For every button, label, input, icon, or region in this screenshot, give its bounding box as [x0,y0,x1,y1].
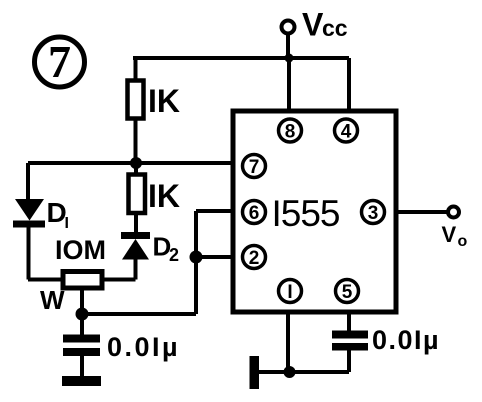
pin 7 [243,155,266,179]
terminal Vcc [282,21,295,34]
junction pin2 node [190,251,203,264]
label Vo [442,222,468,250]
resistor R1 1K [128,81,144,119]
capacitor C1 0.01u [63,335,100,357]
resistor R2 1K [129,175,146,214]
svg-text:I555: I555 [271,193,339,234]
wire wiper to pins 2-6 [82,312,196,316]
svg-text:I: I [287,282,292,303]
capacitor C2 0.01u [332,331,368,351]
potentiometer 10M [63,272,102,289]
wire Vcc to top rail [286,34,290,58]
wire left drop to D1 [26,163,30,200]
svg-text:8: 8 [285,122,296,143]
wire pot left lead [28,278,63,282]
wire pin5 drop [347,312,351,331]
wire node A to R2 [134,163,138,175]
wire top rail to R1 [134,58,138,81]
op-amp U1 IC 1555 box [233,111,396,312]
svg-text:0.0Iµ: 0.0Iµ [372,325,440,355]
svg-text:6: 6 [249,203,260,224]
svg-text:V: V [442,222,457,247]
pin 4 [335,119,358,143]
svg-text:2: 2 [169,245,179,265]
wire pins 2-6 vertical [194,211,198,314]
wiper arm W [80,288,84,314]
ground symbol [250,356,260,389]
svg-text:o: o [458,233,468,250]
figure label 7 [35,36,85,87]
wire pin2 stub [196,255,233,259]
pin 1 [279,280,302,304]
ground bar left [62,376,101,386]
wire C1 to ground [80,356,84,376]
wire pin8 drop [287,58,291,111]
pin 5 [336,280,359,304]
svg-text:I: I [65,215,69,232]
label D2 [153,232,180,266]
wire node A rail to pin7 [28,161,233,165]
junction Vcc rail [285,54,294,63]
wire C2 to ground rail [347,351,351,373]
wire D2 bottom drop [134,258,138,280]
diode D2 [121,232,150,260]
pin 2 [243,246,266,270]
terminal Vo [448,207,459,218]
junction wiper node [76,308,89,321]
svg-text:0.0Iµ: 0.0Iµ [107,332,180,362]
svg-text:5: 5 [342,282,353,303]
svg-text:4: 4 [341,122,352,143]
svg-text:7: 7 [249,157,260,178]
svg-text:cc: cc [322,15,348,41]
junction ground rail pin1 [284,366,296,378]
wire pot right lead [102,278,136,282]
wire pin1 drop [286,312,290,372]
wire R2 to D2 [134,213,138,232]
pin 6 [243,201,266,225]
wire R1 bottom to node A [134,119,138,164]
svg-text:V: V [302,7,324,43]
svg-text:2: 2 [249,248,260,269]
pin 8 [279,119,302,143]
label Vcc [302,7,348,43]
wire pin3 output [396,210,448,214]
diode D1 [13,199,45,228]
svg-text:3: 3 [368,203,379,224]
pin 3 [362,201,385,225]
svg-text:IK: IK [148,83,180,119]
label D1 [47,197,69,232]
wire top rail [133,56,349,60]
wire pin6 stub [196,209,233,213]
wire wiper node to C1 [80,314,84,335]
svg-text:IK: IK [148,178,180,214]
svg-text:IOM: IOM [55,235,106,265]
svg-text:W: W [40,285,65,315]
wire pin4 drop [347,58,351,111]
wire D1 to pot left [27,227,31,280]
wire ground rail [257,370,349,374]
svg-text:7: 7 [48,36,71,87]
junction node A [130,157,142,169]
